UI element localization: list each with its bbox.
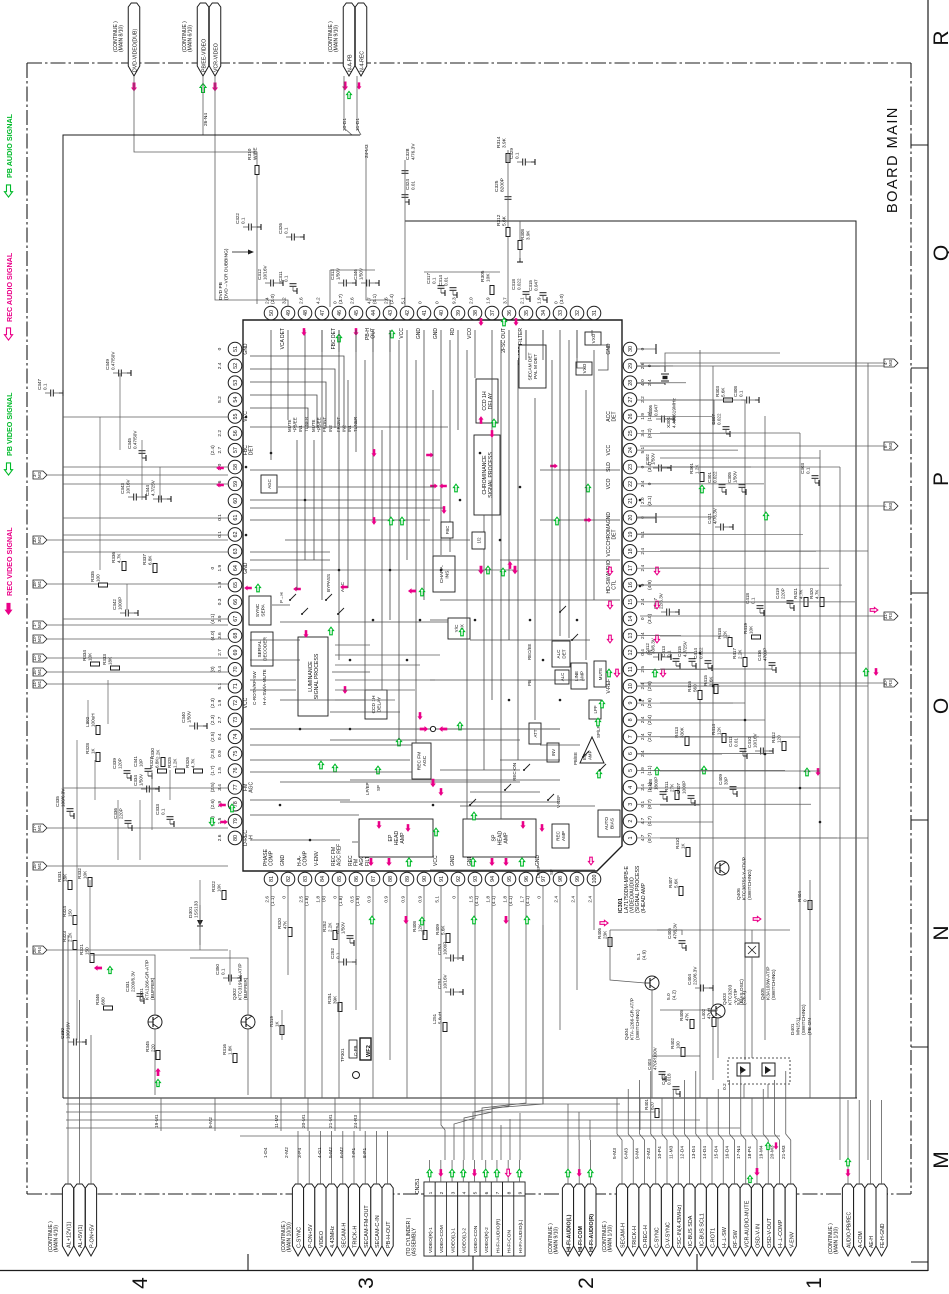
wire ic mesh h xyxy=(340,801,560,803)
pin 13 xyxy=(623,629,637,643)
pin 31 xyxy=(587,306,601,320)
svg-text:7: 7 xyxy=(628,735,634,738)
wire D-V-SYNC up xyxy=(666,1140,668,1184)
svg-text:2.4: 2.4 xyxy=(587,896,593,903)
block ALC xyxy=(555,670,569,684)
arrow signal xyxy=(371,449,376,457)
connector HI-FI-AUDIO(R) xyxy=(585,1184,596,1256)
wire bottom bus main xyxy=(63,1097,857,1099)
svg-text:R252: R252 xyxy=(322,921,327,932)
svg-text:22: 22 xyxy=(628,481,634,487)
pin 19 xyxy=(623,528,637,542)
svg-text:C335: C335 xyxy=(55,796,60,807)
wire right h xyxy=(637,821,713,823)
connector CN251 pin 9 HI-FI-AUDIO(L) xyxy=(514,1182,525,1196)
arrow signal xyxy=(426,452,434,457)
svg-text:2.2K: 2.2K xyxy=(156,749,161,759)
capacitor C311 xyxy=(290,283,297,285)
pin 84 xyxy=(315,872,329,886)
arrow signal xyxy=(438,788,443,796)
svg-text:49: 49 xyxy=(286,310,292,316)
wire SECAM-H up xyxy=(621,1140,623,1184)
transistor Q404 xyxy=(645,976,659,990)
arrow signal xyxy=(585,484,590,492)
wire ic inner h xyxy=(250,499,440,501)
node 14-M1 xyxy=(33,680,47,688)
arrow signal xyxy=(489,430,494,438)
arrow signal xyxy=(218,802,226,807)
svg-text:1/2: 1/2 xyxy=(476,537,481,544)
wire cn251 stair 5 xyxy=(482,1098,526,1160)
svg-text:VCR-AUDIO-MUTE: VCR-AUDIO-MUTE xyxy=(744,1200,750,1248)
capacitor C314 xyxy=(450,287,457,289)
svg-text:IN2: IN2 xyxy=(328,425,333,432)
pin 48 xyxy=(298,306,312,320)
wire ic mesh h xyxy=(540,744,580,746)
svg-text:IIC-BUS SDA: IIC-BUS SDA xyxy=(688,1215,694,1248)
svg-text:R3: R3 xyxy=(888,613,893,619)
wire right pin stub xyxy=(637,533,803,535)
wire P-ON+5V up xyxy=(308,1131,310,1184)
svg-text:(3.1): (3.1) xyxy=(647,495,653,505)
pin 15 xyxy=(623,595,637,609)
pin 72 xyxy=(228,696,242,710)
capacitor C302 xyxy=(658,465,660,472)
wire 30-R3 xyxy=(640,682,884,684)
wire ic inner v xyxy=(440,330,442,555)
svg-text:120P: 120P xyxy=(118,758,123,769)
wire cn251 riser xyxy=(519,1113,521,1160)
wire right h xyxy=(660,550,868,552)
svg-text:14-D4: 14-D4 xyxy=(702,1146,708,1159)
wire cn251 stair 6 xyxy=(492,925,543,1160)
capacitor C414 xyxy=(705,660,712,662)
pin 52 xyxy=(228,359,242,373)
connector TRICK-H xyxy=(348,1184,359,1256)
svg-text:18: 18 xyxy=(628,548,634,554)
wire cn251 riser xyxy=(509,1119,511,1160)
resistor R303 xyxy=(724,398,733,402)
connector CN251 pin 6 VIDEO(R)-2 xyxy=(480,1182,491,1196)
svg-text:AMP: AMP xyxy=(580,671,585,681)
wire ic inner h xyxy=(250,639,300,641)
svg-text:6.8K: 6.8K xyxy=(155,758,160,768)
svg-text:5.1: 5.1 xyxy=(434,896,440,903)
svg-text:29: 29 xyxy=(628,363,634,369)
capacitor C418 xyxy=(757,605,764,607)
arrow signal xyxy=(375,766,380,774)
wire right pin stub xyxy=(637,550,816,552)
svg-text:(2.5): (2.5) xyxy=(210,748,216,758)
wire pins to nest xyxy=(321,330,323,352)
capacitor C346 xyxy=(366,280,368,287)
svg-text:81: 81 xyxy=(269,876,275,882)
svg-text:OSD-V-IN: OSD-V-IN xyxy=(756,1224,762,1248)
capacitor C317 xyxy=(438,285,445,287)
svg-text:2.4: 2.4 xyxy=(264,297,270,304)
wire ic mesh h xyxy=(278,486,434,488)
svg-text:2.2: 2.2 xyxy=(217,430,223,437)
pin 10 xyxy=(623,679,637,693)
connector AE-H xyxy=(865,1184,876,1256)
svg-text:M3: M3 xyxy=(37,471,42,478)
svg-text:0.1: 0.1 xyxy=(161,808,166,815)
svg-text:5.6K: 5.6K xyxy=(721,387,726,397)
block ALC DET xyxy=(552,641,570,667)
svg-text:7: 7 xyxy=(495,1191,501,1194)
svg-text:LP/EP: LP/EP xyxy=(365,782,370,795)
capacitor C330 xyxy=(73,1039,75,1046)
pin 49 xyxy=(281,306,295,320)
capacitor C252 xyxy=(343,959,345,966)
svg-text:41: 41 xyxy=(422,310,428,316)
svg-text:20-M1: 20-M1 xyxy=(301,1114,307,1128)
wire left h xyxy=(63,618,228,620)
resistor R404 xyxy=(808,901,812,910)
svg-text:1.2K: 1.2K xyxy=(695,464,700,474)
arrow botpin g2 xyxy=(419,917,424,925)
svg-text:5.6K: 5.6K xyxy=(674,878,679,888)
arrow pb audio xyxy=(4,185,12,197)
svg-text:MUTE: MUTE xyxy=(598,668,603,681)
svg-text:M2: M2 xyxy=(37,536,42,543)
svg-text:100: 100 xyxy=(676,1041,681,1049)
pin 92 xyxy=(451,872,465,886)
svg-text:0.9: 0.9 xyxy=(383,896,389,903)
capacitor C412 xyxy=(658,654,660,661)
connector CN251 pin 7 HI-FI-AUDIO(R) xyxy=(491,1182,502,1196)
svg-text:GND: GND xyxy=(243,562,249,574)
svg-text:31: 31 xyxy=(592,310,598,316)
svg-text:PB/EE: PB/EE xyxy=(573,752,578,765)
svg-text:61: 61 xyxy=(233,515,239,521)
inductor L302 xyxy=(96,726,100,735)
arrow signal xyxy=(220,819,228,824)
svg-text:R401: R401 xyxy=(644,1099,649,1110)
wire 31-R3 xyxy=(640,615,884,617)
capacitor C322 xyxy=(248,224,250,231)
svg-text:72: 72 xyxy=(233,700,239,706)
arrow CN251 pin 1 xyxy=(427,1169,432,1177)
svg-text:VIDEO(R)-2: VIDEO(R)-2 xyxy=(484,1227,490,1253)
svg-text:R404: R404 xyxy=(797,891,802,902)
svg-text:C306: C306 xyxy=(648,405,653,416)
arrow signal xyxy=(863,668,868,676)
svg-text:2-M3: 2-M3 xyxy=(646,1148,652,1159)
connector CN251 pin 4 VIDEO(L)-2 xyxy=(458,1182,469,1196)
svg-text:25: 25 xyxy=(628,430,634,436)
pin 38 xyxy=(468,306,482,320)
svg-text:R251: R251 xyxy=(327,993,332,1004)
arrow signal xyxy=(399,517,404,525)
pin 61 xyxy=(228,511,242,525)
block INV xyxy=(547,743,559,762)
arrow signal xyxy=(216,482,224,487)
node 10-M2 xyxy=(33,536,47,544)
wire C-SYNC up xyxy=(297,1131,299,1184)
svg-text:SYNC: SYNC xyxy=(255,603,261,617)
svg-text:C333: C333 xyxy=(155,804,160,815)
wire pin down 2 xyxy=(423,886,425,935)
svg-text:1.8: 1.8 xyxy=(485,896,491,903)
svg-text:100/16V: 100/16V xyxy=(66,1021,71,1039)
svg-text:1.9: 1.9 xyxy=(485,297,491,304)
node 30-R3 xyxy=(884,679,898,687)
wire right pin stub xyxy=(637,466,751,468)
block VXO 1 xyxy=(585,332,601,345)
resistor R414 xyxy=(722,734,726,743)
svg-text:(SWITCHING): (SWITCHING) xyxy=(771,969,777,1000)
svg-text:42: 42 xyxy=(405,310,411,316)
pin 69 xyxy=(228,646,242,660)
arrow signal xyxy=(405,824,410,832)
pin 45 xyxy=(349,306,363,320)
pin 68 xyxy=(228,629,242,643)
wire CN251 3 up xyxy=(451,1160,453,1182)
svg-text:R4: R4 xyxy=(37,947,42,953)
wire right h xyxy=(637,533,700,535)
svg-text:4.43MHz: 4.43MHz xyxy=(330,1226,336,1248)
svg-text:V-REF: V-REF xyxy=(606,679,612,694)
wire right h xyxy=(637,516,713,518)
wire 10-M2 xyxy=(47,539,228,541)
wire ic mesh h xyxy=(250,551,330,553)
svg-text:9-M2: 9-M2 xyxy=(208,1117,214,1128)
wire pin down 2 xyxy=(355,886,357,1010)
svg-text:0.047: 0.047 xyxy=(534,279,539,291)
svg-text:GND: GND xyxy=(433,328,439,340)
svg-text:(2.3): (2.3) xyxy=(210,715,216,725)
svg-text:50: 50 xyxy=(269,310,275,316)
svg-text:0.1: 0.1 xyxy=(217,514,223,521)
resistor R334 xyxy=(91,662,100,666)
arrow signal xyxy=(332,764,337,772)
capacitor C313 xyxy=(343,280,345,287)
capacitor C349 xyxy=(118,370,120,377)
wire right h xyxy=(660,432,800,434)
wire right h xyxy=(660,770,820,772)
resistor R310 xyxy=(255,166,259,175)
svg-text:1.7: 1.7 xyxy=(519,896,525,903)
resistor R323 xyxy=(73,941,77,950)
connector VIDEO xyxy=(315,1184,326,1256)
wire right pin stub xyxy=(637,668,707,670)
wire left v xyxy=(117,800,119,860)
wire pin27 r303 xyxy=(637,399,714,401)
svg-text:(MAIN 9/10): (MAIN 9/10) xyxy=(554,1227,560,1254)
connector H-⊥-COMP xyxy=(774,1184,785,1256)
svg-text:2.2: 2.2 xyxy=(640,396,646,403)
capacitor C324 xyxy=(402,194,409,196)
svg-text:M1: M1 xyxy=(37,668,42,675)
svg-text:82: 82 xyxy=(286,876,292,882)
connector SECAM-FM-OUT xyxy=(360,1184,371,1256)
wire ic inner v xyxy=(372,330,374,520)
svg-text:(2.0): (2.0) xyxy=(270,294,276,304)
wire 24-M3 down xyxy=(366,150,390,307)
svg-text:VIDEO-CON: VIDEO-CON xyxy=(473,1225,479,1253)
svg-text:HI-FI-AUDIO(R): HI-FI-AUDIO(R) xyxy=(589,1214,595,1252)
block ATT xyxy=(529,723,541,744)
svg-text:47K: 47K xyxy=(283,920,288,929)
svg-text:AUTO: AUTO xyxy=(604,817,610,831)
svg-text:2.6: 2.6 xyxy=(264,896,270,903)
wire CN251 7 up xyxy=(496,1160,498,1182)
arrow pb/ee-video xyxy=(200,84,206,93)
wire ic mesh v xyxy=(534,398,536,720)
wire 26-R4 xyxy=(47,949,228,951)
wire ic inner v xyxy=(593,350,595,600)
pin 94 xyxy=(485,872,499,886)
pin 89 xyxy=(400,872,414,886)
svg-text:0.47/50V: 0.47/50V xyxy=(111,351,116,370)
capacitor C419 xyxy=(787,600,794,602)
svg-text:C341: C341 xyxy=(133,756,138,767)
node 26-R4 xyxy=(33,946,47,954)
wire right pin stub xyxy=(637,635,681,637)
svg-text:KTA-1266-GR-AT/P: KTA-1266-GR-AT/P xyxy=(630,998,636,1040)
svg-text:120: 120 xyxy=(777,735,782,743)
pin 41 xyxy=(417,306,431,320)
svg-text:SIGNAL PROCESS: SIGNAL PROCESS xyxy=(314,653,320,699)
svg-text:INV: INV xyxy=(551,749,556,756)
svg-text:DELAY: DELAY xyxy=(377,696,383,712)
pin 18 xyxy=(623,545,637,559)
wire 7-M3 xyxy=(640,505,884,507)
svg-text:1: 1 xyxy=(803,1277,826,1289)
svg-text:TP301: TP301 xyxy=(340,1048,345,1062)
wire 14-M1 xyxy=(47,683,228,685)
arrow signal xyxy=(439,483,447,488)
svg-text:OUT: OUT xyxy=(371,328,377,339)
wire right h xyxy=(660,365,884,367)
svg-text:2: 2 xyxy=(628,820,634,823)
wire right pin stub xyxy=(637,651,694,653)
svg-text:4.7/25V: 4.7/25V xyxy=(151,479,156,496)
svg-text:R303: R303 xyxy=(715,386,720,397)
wire CN251 2 up xyxy=(440,1160,442,1182)
svg-text:C-SYNC: C-SYNC xyxy=(297,1227,303,1248)
resistor R411 xyxy=(675,791,679,800)
capacitor C334 xyxy=(146,786,148,793)
wire right h xyxy=(660,601,790,603)
svg-text:REC-ON: REC-ON xyxy=(512,763,517,781)
wire HI-FI-AUDIO(L) up xyxy=(567,1140,569,1184)
svg-text:330K: 330K xyxy=(680,726,685,738)
svg-text:CCD 1H: CCD 1H xyxy=(371,695,377,713)
capacitor C339 xyxy=(124,770,131,772)
wire x-junction h xyxy=(250,728,560,730)
svg-text:Q301: Q301 xyxy=(139,988,145,1000)
svg-text:FSC-IN(4.43MHz): FSC-IN(4.43MHz) xyxy=(677,1205,683,1248)
svg-text:24-R3: 24-R3 xyxy=(353,1115,359,1128)
svg-text:C336: C336 xyxy=(113,808,118,819)
svg-text:H-⊥-COMP: H-⊥-COMP xyxy=(778,1219,784,1248)
wire ic mesh h xyxy=(285,539,470,541)
svg-text:AE-H: AE-H xyxy=(869,1236,875,1248)
svg-text:33: 33 xyxy=(558,310,564,316)
svg-text:73: 73 xyxy=(233,717,239,723)
pin 6 xyxy=(623,747,637,761)
svg-text:VIDEO-COM: VIDEO-COM xyxy=(439,1225,445,1253)
pin 85 xyxy=(332,872,346,886)
resistor R333 xyxy=(111,666,120,670)
svg-text:1.8K: 1.8K xyxy=(228,1045,233,1055)
connector DVD-VIDEO(DUB) xyxy=(128,3,140,76)
wire 12-M2 xyxy=(47,657,228,659)
pin 70 xyxy=(228,663,242,677)
svg-text:C324: C324 xyxy=(405,179,410,190)
svg-text:0.1: 0.1 xyxy=(806,467,811,474)
svg-text:AGC: AGC xyxy=(249,782,255,793)
capacitor C306 xyxy=(661,416,663,423)
svg-text:CTL: CTL xyxy=(612,580,618,590)
arrow signal xyxy=(255,584,260,592)
svg-text:(2.3): (2.3) xyxy=(210,698,216,708)
arrow signal xyxy=(870,607,878,612)
wire right pin stub xyxy=(637,483,764,485)
pin 88 xyxy=(383,872,397,886)
svg-text:GND: GND xyxy=(450,855,456,867)
wire right pin stub xyxy=(637,567,829,569)
svg-text:11: 11 xyxy=(628,667,634,673)
svg-text:VCC: VCC xyxy=(243,697,249,708)
connector HI-FI-AUDIO(L) xyxy=(562,1184,573,1256)
svg-text:0.9: 0.9 xyxy=(400,896,406,903)
svg-text:4: 4 xyxy=(461,1191,467,1194)
svg-text:SERIAL: SERIAL xyxy=(257,640,263,657)
node 15-M1 xyxy=(33,862,47,870)
svg-text:(2.6): (2.6) xyxy=(210,799,216,809)
pin 54 xyxy=(228,393,242,407)
svg-text:C404: C404 xyxy=(687,974,692,985)
connector AUDIO-PB/REC xyxy=(842,1184,853,1256)
arrow signal xyxy=(607,601,612,609)
svg-text:24: 24 xyxy=(628,447,634,453)
svg-text:35: 35 xyxy=(524,310,530,316)
svg-text:0: 0 xyxy=(640,516,646,519)
arrow signal xyxy=(654,601,659,609)
svg-text:1.8: 1.8 xyxy=(315,896,321,903)
svg-text:C311: C311 xyxy=(278,271,283,282)
svg-text:1.9: 1.9 xyxy=(217,565,223,572)
resistor R421 xyxy=(804,598,808,607)
wire left v xyxy=(107,680,109,724)
capacitor C415 xyxy=(689,658,696,660)
arrow AUDIO-PB/REC dn xyxy=(845,1169,850,1177)
svg-text:H-⊥-SW: H-⊥-SW xyxy=(722,1226,728,1248)
svg-text:P-ON+5V: P-ON+5V xyxy=(308,1224,314,1248)
svg-text:0.1: 0.1 xyxy=(241,217,246,224)
block CHARA INS 2 xyxy=(432,555,433,557)
wire right h xyxy=(637,719,765,721)
svg-text:VXO: VXO xyxy=(591,333,596,343)
svg-text:10/16V: 10/16V xyxy=(443,974,448,989)
svg-text:MUTE: MUTE xyxy=(311,419,316,432)
svg-text:TRICK-H: TRICK-H xyxy=(353,1226,359,1248)
wire right h xyxy=(660,837,868,839)
arrow botpin g3 xyxy=(471,916,476,924)
arrow signal xyxy=(584,517,592,522)
svg-text:24-M3: 24-M3 xyxy=(364,144,370,158)
svg-text:C411: C411 xyxy=(728,736,733,747)
crystal X301 plates xyxy=(661,373,669,375)
wire left v xyxy=(151,770,153,830)
svg-text:GND: GND xyxy=(606,512,612,524)
svg-text:C317: C317 xyxy=(426,273,431,284)
wire left h xyxy=(63,466,228,468)
svg-text:92: 92 xyxy=(456,876,462,882)
